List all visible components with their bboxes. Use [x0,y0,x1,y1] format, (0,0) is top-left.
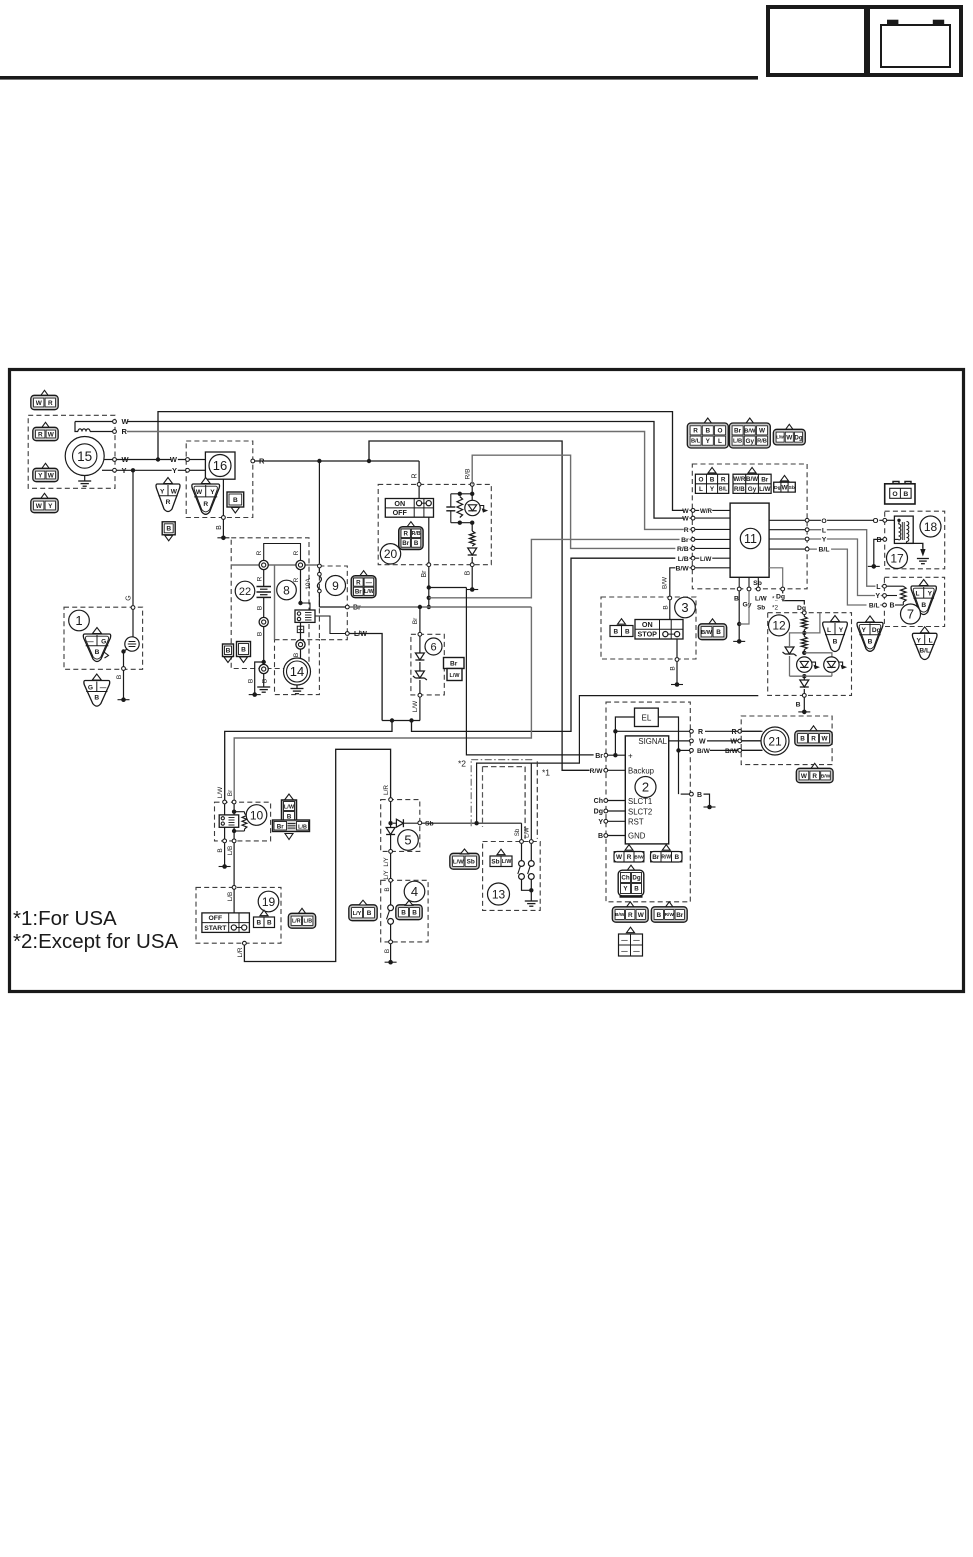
svg-text:Y: Y [48,503,53,510]
svg-text:L/W: L/W [755,596,768,603]
svg-text:Dg: Dg [794,434,802,441]
AC magneto 15 symbol [65,437,104,487]
connector B-R-W 21 [795,726,832,746]
svg-text:W: W [821,736,828,743]
svg-text:Br: Br [595,753,603,760]
diode 6 out wire [419,680,421,693]
wire B to resistor [895,602,903,605]
junction EL-BW [676,748,680,752]
terminal BL 7 [883,603,895,610]
terminal LR 19 [237,941,247,957]
svg-text:B: B [257,606,264,610]
svg-text:5: 5 [404,833,411,848]
svg-text:R/W: R/W [665,912,675,918]
svg-text:R: R [122,427,128,436]
wire B/L to 7 [809,549,882,610]
svg-text:—: — [366,579,373,586]
ground 13 [525,901,538,906]
svg-text:22: 22 [239,586,251,598]
svg-text:B: B [800,736,805,743]
svg-text:Br: Br [402,540,409,547]
terminal Dg [781,587,785,591]
svg-text:B: B [697,792,702,799]
junction Br diode [418,605,422,609]
terminal sensor B [122,667,126,671]
svg-text:W: W [196,489,203,496]
ignition coil dashed box 17-18 [885,511,945,569]
connector BW-R-W clock [612,902,648,922]
svg-text:Gy: Gy [746,438,755,445]
connector Br-RW-B clock [651,845,683,862]
svg-text:R/B: R/B [757,439,767,445]
svg-text:L/B: L/B [303,919,312,925]
resistor 10 [234,812,247,831]
svg-text:B: B [241,646,246,653]
terminal Br out of 20 [421,563,431,578]
svg-text:Y: Y [861,627,866,634]
stop switch table 20 [385,499,433,518]
connector W-R-BW 21 [796,763,833,782]
clock unit 2 [625,736,668,844]
svg-text:12: 12 [772,619,786,633]
terminal LW 10 [217,786,227,804]
svg-text:B: B [216,525,223,530]
wire fuse to Br terminal [319,606,345,608]
connector R-/Br-LW [351,571,376,598]
svg-text:B: B [384,887,391,891]
svg-text:R/B: R/B [465,469,472,480]
resistor 12 upper [801,615,807,633]
svg-text:B: B [217,848,224,852]
connector G--B triangle [84,674,110,706]
wire LW 6 down [419,697,421,720]
clock 2 number [635,777,656,798]
connector B-B 19 [254,910,275,927]
dashed star1 marker [483,761,538,838]
svg-text:RST: RST [628,818,644,827]
svg-text:*1: *1 [542,768,550,778]
svg-text:Br: Br [734,428,742,435]
wire B/W to stop switch 3 [662,568,694,598]
wire sensor B [116,652,124,698]
svg-text:R: R [38,431,43,438]
svg-text:L: L [876,584,881,591]
junction diode 5 [388,821,392,825]
svg-text:B/W: B/W [675,565,689,572]
terminal B out of 20 [465,563,474,576]
svg-text:B: B [233,497,238,504]
connector LW-W-Dg [773,424,805,445]
wire battery plus [257,570,264,586]
svg-text:Br: Br [681,537,689,544]
wire LW bus [382,720,420,722]
connector B small box 2 [162,522,175,541]
junction R backup [367,459,371,463]
svg-text:15: 15 [77,449,92,464]
terminal B 16 [222,516,226,520]
wire O to coil [809,516,882,525]
sensor 1 number [69,610,90,631]
connector B-B 4 [396,901,422,920]
connector WR-BW-Br/RB-Gy-LW [733,467,771,493]
terminal Dg 12 [802,611,806,615]
stop switch dashed box 3 [601,597,696,659]
svg-text:O: O [873,516,879,525]
label W before 16 [170,455,178,464]
led bottom rail [451,521,475,525]
connector B pair left [223,644,234,663]
svg-text:Br: Br [676,912,684,919]
coil 17 number [887,548,908,569]
wire Br to clock plus [466,588,608,755]
terminal Br 6 [418,632,422,636]
svg-text:B/W: B/W [744,428,756,434]
terminal O coil [883,518,887,522]
svg-text:W: W [638,912,645,919]
terminal battery + [259,560,268,569]
wire Br into relay [233,804,235,815]
svg-text:R: R [721,476,726,483]
clock pin Br [594,752,626,759]
terminal R out of 16 [251,459,255,463]
junction EL-plus [613,753,617,757]
meter stub Sb [753,577,762,591]
svg-text:L/W: L/W [450,673,461,679]
junction Br c [427,605,431,609]
svg-text:L/W: L/W [217,786,224,798]
dash-dot star2 marker [471,760,534,827]
svg-text:—: — [100,684,107,691]
terminal Sb 5 [418,820,434,827]
terminal R top [113,430,117,434]
capacitor 20 [446,494,455,523]
starter relay 8 coil [295,610,315,622]
diode 6 wire [419,637,421,654]
svg-text:W: W [48,472,55,479]
svg-text:B: B [598,833,603,840]
svg-text:Sb: Sb [491,859,499,866]
svg-text:7: 7 [907,607,914,622]
svg-text:R: R [293,577,300,582]
svg-text:10: 10 [250,808,264,822]
switch 13 left [518,844,532,891]
svg-text:Br: Br [355,589,362,596]
wire Br from table [428,517,430,605]
junction 13 [529,888,533,892]
svg-text:B: B [257,632,264,636]
rail 12 bottom [790,672,832,676]
ground stop switch [466,587,478,592]
plug 18 number [920,516,941,537]
battery 22 number [235,581,255,601]
svg-text:R/W: R/W [661,855,671,861]
wire LR to start circuit [244,749,390,961]
svg-text:B: B [367,910,372,917]
svg-text:R: R [627,854,632,861]
svg-text:Y: Y [822,537,827,544]
svg-text:W: W [699,739,706,746]
svg-text:Gy: Gy [742,601,751,608]
svg-text:B: B [287,813,292,820]
spark plug 18 [917,543,929,563]
terminal W top [113,420,117,424]
diode 6 mid wire [419,662,421,671]
magneto lighting coil [75,422,112,432]
resistor 12 lower [801,633,807,653]
terminal LW out [345,632,349,636]
terminal LY 5 [389,850,393,854]
svg-text:R: R [812,773,817,780]
connector W-Y [31,493,58,512]
svg-text:O: O [821,518,826,525]
meter stub B [734,577,741,602]
wire L/B to meter [412,558,694,731]
svg-text:B/W: B/W [725,748,739,755]
terminal B coil [876,537,886,544]
main fuse dashed box 9 [319,566,347,640]
diode 12 bottom [800,676,809,693]
connector O-B-R/L-Y-BL [695,467,728,493]
svg-text:14: 14 [290,664,304,679]
svg-text:W: W [682,508,689,515]
wire Br bus [350,606,532,608]
terminal Y into 16 [186,468,190,472]
header box right (battery symbol cell) [868,7,961,75]
svg-text:16: 16 [213,458,227,473]
red supply bus [231,564,321,566]
wire R to engine stop sw 20 [418,461,420,482]
EL right wire [658,717,678,794]
led top rail [451,493,472,495]
wire R down to main fuse [318,461,320,564]
ground starter [291,685,304,694]
svg-text:—: — [621,948,628,955]
svg-text:B: B [262,679,269,683]
terminal Br out [345,605,349,609]
wire into table 3 [669,600,671,619]
svg-text:W: W [682,516,689,523]
terminal LB 19 [227,886,236,902]
svg-text:B: B [293,653,300,657]
svg-text:B: B [796,701,801,708]
junction B-Gy [737,622,741,626]
ground main switch B [217,536,229,541]
svg-text:Dg: Dg [774,485,780,491]
terminal top 4 [384,878,393,891]
svg-text:G: G [126,595,133,600]
rail 12 left lower [789,656,791,676]
connector B-RW-Br clock [651,902,687,922]
svg-text:W: W [48,431,55,438]
clock B row [681,792,710,807]
svg-text:B: B [247,679,254,683]
clock dashed box 2 [606,702,690,902]
svg-text:G: G [101,638,106,645]
wire Br to diode 6 [412,607,420,632]
wire LW from fuse box [350,634,383,721]
rail 12 to led2 [804,653,832,657]
svg-text:B/L: B/L [819,547,830,554]
terminal B/W into 3 [662,596,671,610]
clock labels [628,737,668,841]
EL box [635,708,659,726]
diode 6 number [425,638,442,655]
svg-text:STOP: STOP [638,630,658,639]
terminal battery minus 2 [259,664,268,673]
wire to B out [471,557,473,563]
legend *2 Except for USA [13,930,179,953]
svg-text:10A: 10A [305,578,312,590]
ground battery chassis [249,692,261,697]
label R top [121,427,128,436]
svg-text:ON: ON [642,620,653,629]
svg-text:Br: Br [227,789,234,796]
svg-text:B: B [267,920,272,927]
svg-text:18: 18 [924,520,938,534]
svg-text:W/R: W/R [733,476,746,483]
circle 8 starter relay number [277,580,297,600]
svg-text:R: R [811,736,816,743]
svg-text:B: B [465,570,472,575]
svg-text:OFF: OFF [393,508,408,517]
terminal LW 13 [529,840,533,844]
svg-text:Ch: Ch [621,875,629,882]
wire B ground 20 [471,567,473,590]
junction sensor B [121,649,125,653]
connector Y-Dg-B triangle [857,616,883,651]
svg-text:R/B: R/B [412,531,421,537]
terminal LW 6 [412,693,422,712]
svg-text:Sb: Sb [467,859,475,866]
svg-text:B: B [414,540,419,547]
svg-text:R: R [412,473,419,478]
svg-text:W: W [170,455,178,464]
svg-text:Gy: Gy [748,486,757,493]
wire Dg from meter [769,568,783,589]
junction Y/G [131,468,135,472]
svg-text:L: L [827,627,831,634]
sensor 21 number [761,727,789,755]
clock BW row [679,748,763,755]
svg-text:—: — [633,937,640,944]
svg-text:B/L: B/L [719,487,728,493]
junction 12 a [802,631,806,635]
wire B meter ground [738,591,740,641]
clock W row [669,738,762,745]
wire Sb to 13 [514,823,522,839]
sensor symbol [124,610,140,652]
wire G down to sensor 1 [126,470,134,605]
wire LW star1 down [525,763,532,839]
labels LW*1 Sb*2 [755,596,778,612]
svg-text:R: R [356,579,361,586]
svg-text:8: 8 [283,583,290,597]
main fuse 10A [305,564,321,607]
terminal W out [104,458,116,462]
label R after 16 [258,457,265,466]
ground 4 [385,944,397,964]
diode 6 lower [413,671,427,680]
wire B coil ground [874,539,883,566]
terminal bottom 4 [384,940,393,953]
svg-text:R/B: R/B [677,546,689,553]
svg-text:13: 13 [492,887,506,901]
svg-text:17: 17 [890,551,904,565]
clock pin Ch [594,798,626,805]
connector R-B-O/BL-Y-L [687,418,728,448]
diode 5 down [386,828,395,835]
svg-text:O: O [892,491,897,498]
ground battery frame [257,687,270,692]
svg-text:W: W [759,428,766,435]
svg-text:Ch: Ch [594,798,603,805]
svg-text:W: W [801,773,808,780]
main diagram border [10,370,964,992]
switch 4 [387,883,394,940]
junction battery ground [262,660,266,664]
connector O-B housing [885,482,915,505]
terminal G sensor [131,606,135,610]
relay output square [297,626,303,632]
svg-text:—: — [633,948,640,955]
wire RB led top [471,487,473,501]
svg-text:EL: EL [642,714,652,723]
sensor dashed box 21 [741,716,832,765]
diode 5 right [393,819,403,827]
terminal LB 10 [227,839,236,855]
ground horn relay [219,843,231,869]
indicator led 20 [465,500,488,515]
wire relay coil to LW [315,616,345,634]
svg-text:Y: Y [839,627,844,634]
svg-text:L/B: L/B [227,846,234,856]
svg-text:19: 19 [262,895,276,909]
wire diode to Sb [404,822,418,824]
meter unit 11 [730,503,769,577]
svg-text:B: B [890,603,895,610]
svg-text:20: 20 [384,547,398,561]
svg-text:Dg: Dg [594,809,603,816]
label W top [121,417,130,426]
svg-text:*2: *2 [772,604,778,611]
AC magneto dashed box 15 [28,415,115,488]
svg-text:—: — [87,638,94,645]
wire W magneto to ignition switch [117,459,187,461]
svg-text:G: G [88,684,93,691]
svg-text:Dg: Dg [632,875,640,882]
zener 12 [783,647,797,656]
svg-text:L: L [916,591,920,598]
svg-text:L/W: L/W [759,486,770,493]
svg-text:R/W: R/W [590,768,604,775]
svg-text:R: R [628,912,633,919]
svg-text:B: B [868,638,873,645]
svg-text:L/W: L/W [502,859,512,865]
connector Dg-W-Sb [774,475,796,492]
wire B ground 3 [676,662,678,685]
terminal L 7 [883,584,887,588]
svg-text:L/Y: L/Y [383,870,390,879]
junction LW a [390,718,394,722]
junction LW b [409,718,413,722]
connector LY-B horn [349,900,377,921]
svg-text:SLCT1: SLCT1 [628,797,652,806]
connector B-B 3 [610,619,633,637]
svg-text:R: R [698,729,703,736]
terminal B out 3 [670,658,679,671]
junction R fuse [317,459,321,463]
svg-text:R: R [684,527,689,534]
